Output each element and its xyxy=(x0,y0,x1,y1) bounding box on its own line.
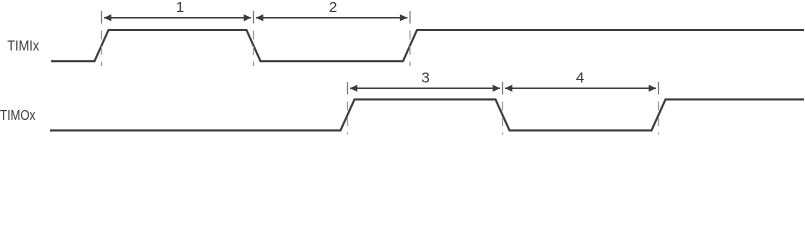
wire TIMIx waveform xyxy=(51,30,804,61)
dimension 4 arrow xyxy=(505,70,656,92)
dimension 3 arrow xyxy=(350,70,500,92)
svg-text:1: 1 xyxy=(176,0,184,16)
node tick C rise2 TIMIx xyxy=(409,11,411,66)
wire TIMOx waveform xyxy=(50,99,804,130)
node tick E fall1 TIMOx xyxy=(502,82,504,135)
dimension 1 arrow xyxy=(104,0,251,21)
svg-text:TIMOx: TIMOx xyxy=(0,108,36,124)
svg-text:3: 3 xyxy=(421,70,429,87)
svg-text:2: 2 xyxy=(329,0,337,16)
node tick A rise1 TIMIx xyxy=(101,11,103,66)
node tick B fall1 TIMIx xyxy=(253,11,255,66)
svg-text:TIMIx: TIMIx xyxy=(7,39,40,55)
svg-text:4: 4 xyxy=(576,70,584,87)
node tick D rise1 TIMOx xyxy=(347,82,349,135)
dimension 2 arrow xyxy=(256,0,408,21)
node tick F rise2 TIMOx xyxy=(658,82,660,135)
